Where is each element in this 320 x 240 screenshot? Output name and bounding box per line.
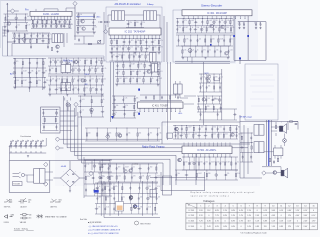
svg-text:ST-50B: ST-50B (13, 184, 20, 186)
IF transformer T202 (112, 11, 125, 20)
svg-text:+: + (75, 171, 76, 173)
svg-text:12: 12 (288, 205, 290, 207)
svg-text:220: 220 (207, 106, 210, 108)
node diamond D3 (55, 137, 59, 141)
transistor Q502 (178, 158, 182, 162)
IF transformer T102 (61, 83, 71, 91)
svg-text:56k: 56k (226, 27, 229, 29)
ground G-br (69, 190, 71, 192)
svg-text:330: 330 (48, 20, 51, 22)
svg-text:47k: 47k (45, 71, 48, 73)
cap pair labels 1 (238, 23, 245, 25)
svg-text:0.01: 0.01 (226, 20, 229, 22)
coil pack L1-L7 (9, 140, 44, 149)
svg-text:0.01: 0.01 (106, 207, 109, 209)
svg-text:10k: 10k (32, 33, 35, 35)
wire mid drops (111, 62, 161, 122)
AF input row (173, 126, 238, 140)
svg-text:IC 202 TA7640AP: IC 202 TA7640AP (125, 31, 146, 34)
svg-text:0.01: 0.01 (191, 161, 194, 163)
svg-text:1k: 1k (192, 27, 194, 29)
svg-text:3.3k: 3.3k (31, 71, 34, 73)
node circle TP-out (283, 139, 287, 143)
svg-text:0.1: 0.1 (82, 110, 84, 112)
wire U301 right drops (234, 16, 266, 61)
svg-text:9-Amp: 9-Amp (147, 3, 154, 6)
svg-text:1k: 1k (152, 78, 154, 80)
svg-text:1u: 1u (259, 23, 261, 25)
audio takeoff cluster (112, 96, 136, 118)
svg-text:AM-FM-ZF-IF-Verstärker: AM-FM-ZF-IF-Verstärker (115, 3, 141, 6)
AF stage watermark lines (249, 75, 275, 106)
resistor R215 (78, 38, 92, 44)
AM osc cluster (48, 76, 104, 94)
svg-text:56k: 56k (68, 60, 71, 62)
svg-text:56k: 56k (118, 54, 121, 56)
svg-text:47k: 47k (109, 175, 112, 177)
paper tint mid band (55, 126, 260, 186)
wire t301 links (176, 81, 188, 98)
svg-text:2.2k: 2.2k (177, 133, 180, 135)
IC U301 body (182, 10, 252, 16)
transistor Q701 (273, 171, 277, 175)
svg-text:S601: S601 (9, 200, 12, 202)
svg-text:=( )= VOLTAGE CERAMIC CAPACITO: =( )= VOLTAGE CERAMIC CAPACITOR (88, 229, 121, 232)
svg-text:0.01: 0.01 (35, 24, 38, 26)
svg-text:330: 330 (98, 60, 101, 62)
paper tint upper-left (0, 0, 166, 126)
IF transformer T201 (52, 34, 63, 43)
svg-text:0.1: 0.1 (123, 54, 125, 56)
svg-text:220: 220 (52, 24, 55, 26)
svg-text:3.3k: 3.3k (118, 46, 121, 48)
svg-text:3.3k: 3.3k (139, 64, 142, 66)
svg-text:Am: Am (10, 73, 13, 76)
svg-text:C305: C305 (28, 200, 32, 202)
svg-text:Radio–Playb. Preamp: Radio–Playb. Preamp (142, 145, 165, 148)
svg-text:0.01: 0.01 (141, 175, 144, 177)
svg-text:470: 470 (16, 61, 19, 63)
bias cluster B mid (126, 21, 144, 28)
svg-text:470: 470 (125, 105, 128, 107)
svg-text:0: 0 (241, 226, 242, 228)
svg-text:0.047: 0.047 (220, 38, 224, 40)
svg-text:0.01: 0.01 (107, 196, 110, 198)
svg-text:0.01: 0.01 (219, 127, 222, 129)
capacitor bank under U201 (31, 20, 72, 28)
svg-text:100: 100 (16, 80, 19, 82)
svg-text:15: 15 (312, 205, 314, 207)
svg-text:1k: 1k (118, 71, 120, 73)
wire diamond D2 drop (74, 6, 76, 40)
svg-text:330: 330 (150, 166, 153, 168)
svg-text:Fm: Fm (25, 8, 28, 11)
svg-text:⊕ +( )+ ELECTROLYTIC CAPACITOR: ⊕ +( )+ ELECTROLYTIC CAPACITOR (88, 232, 119, 235)
scan edge top (0, 0, 118, 2)
svg-text:0.047: 0.047 (188, 127, 192, 129)
svg-text:1k: 1k (79, 60, 81, 62)
svg-text:100: 100 (57, 24, 60, 26)
svg-text:Voltages: Voltages (203, 199, 215, 203)
voltages table cells (188, 205, 316, 229)
svg-text:0.1: 0.1 (57, 20, 59, 22)
svg-text:SW POS.: SW POS. (4, 206, 11, 208)
wire out top rail (240, 122, 298, 179)
svg-text:3.3k: 3.3k (74, 68, 77, 70)
switch unit contacts (42, 110, 59, 131)
svg-text:0.047: 0.047 (211, 161, 215, 163)
svg-text:IC 202: IC 202 (189, 215, 195, 217)
svg-text:2.2k: 2.2k (98, 78, 101, 80)
svg-text:S201: S201 (59, 200, 62, 202)
svg-text:DIODE: DIODE (4, 222, 9, 224)
svg-text:220: 220 (79, 78, 82, 80)
svg-text:220: 220 (159, 64, 162, 66)
wire a-right rails (74, 12, 104, 44)
svg-text:56k: 56k (195, 161, 198, 163)
svg-text:0.1: 0.1 (135, 54, 137, 56)
stereo rows C1 (176, 19, 233, 33)
svg-text:4.7k: 4.7k (160, 40, 163, 42)
svg-text:100: 100 (200, 161, 203, 163)
svg-text:1: 1 (200, 205, 201, 207)
FM front-end cluster (76, 13, 96, 32)
transistor QA5 (56, 45, 60, 49)
svg-text:330: 330 (148, 186, 151, 188)
switch unit box (41, 107, 60, 133)
test point circle TP1 (66, 103, 70, 107)
svg-text:10k: 10k (80, 14, 83, 16)
svg-text:56k: 56k (137, 46, 140, 48)
svg-text:0.047: 0.047 (131, 64, 135, 66)
blue junction dot 1 (233, 35, 235, 37)
svg-text:2.2k: 2.2k (103, 60, 106, 62)
svg-text:10k: 10k (147, 54, 150, 56)
svg-text:pin: pin (188, 205, 190, 207)
IC U201 pins (32, 16, 71, 20)
matrix lower cluster (197, 96, 222, 112)
svg-text:330: 330 (29, 214, 32, 216)
bridge rectifier BR1 (61, 169, 80, 187)
svg-text:1k: 1k (32, 39, 34, 41)
wire output loop (150, 172, 205, 191)
ratio detector cluster (115, 62, 160, 84)
wire sd mid stubs (184, 81, 220, 104)
svg-text:220: 220 (201, 127, 204, 129)
svg-text:3.3k: 3.3k (237, 173, 240, 175)
svg-text:470: 470 (131, 40, 134, 42)
svg-text:NF-AF-stage: NF-AF-stage (240, 116, 253, 119)
wire am left vert (16, 58, 47, 146)
svg-text:100: 100 (185, 161, 188, 163)
svg-text:47k: 47k (140, 207, 143, 209)
node test point diamond D1 (10, 9, 14, 13)
legend switch symbol (4, 199, 12, 202)
svg-text:0.1: 0.1 (86, 60, 88, 62)
IC U501 pins top (184, 143, 230, 147)
coil pack junction dots (11, 152, 42, 153)
svg-text:470: 470 (92, 87, 95, 89)
svg-text:0: 0 (200, 226, 201, 228)
svg-text:1k: 1k (74, 78, 76, 80)
svg-text:470: 470 (118, 166, 121, 168)
ground G-coil (27, 155, 29, 157)
node diamond D9 (74, 102, 78, 106)
svg-text:0.047: 0.047 (184, 27, 188, 29)
svg-text:220: 220 (53, 20, 56, 22)
svg-text:TEST POINT: TEST POINT (140, 223, 151, 225)
cap pair labels 2 (254, 23, 261, 25)
preamp transistor stage (98, 164, 158, 182)
svg-text:0: 0 (208, 215, 209, 217)
legend res spec text (29, 214, 32, 219)
wire coil rails (10, 146, 47, 160)
svg-text:1k: 1k (103, 99, 105, 101)
blue agc wire (76, 16, 95, 18)
blue arrow marker (111, 116, 114, 119)
svg-text:220: 220 (178, 27, 181, 29)
capacitor pair C310 C311 (238, 22, 245, 29)
svg-text:4.7k: 4.7k (62, 87, 65, 89)
svg-text:SPARE PART NO CHANGE: SPARE PART NO CHANGE (45, 216, 67, 219)
svg-text:10: 10 (272, 205, 274, 207)
svg-text:4.7k: 4.7k (103, 68, 106, 70)
svg-text:330: 330 (39, 33, 42, 35)
svg-text:22k: 22k (74, 87, 77, 89)
svg-text:0.047: 0.047 (125, 166, 129, 168)
svg-text:10k: 10k (136, 98, 139, 100)
svg-text:0.047: 0.047 (191, 20, 195, 22)
switch block S401 (167, 133, 173, 138)
blue node marker c (210, 44, 212, 46)
svg-text:56k: 56k (208, 27, 211, 29)
svg-text:10k: 10k (197, 27, 200, 29)
svg-text:0.1: 0.1 (123, 196, 125, 198)
IF amp section box (106, 7, 162, 62)
trimmer VC201 (97, 40, 101, 44)
svg-text:0.01: 0.01 (182, 133, 185, 135)
svg-text:330: 330 (215, 20, 218, 22)
svg-text:0.1: 0.1 (219, 133, 221, 135)
svg-text:2.2k: 2.2k (113, 40, 116, 42)
PSU filter cluster (84, 160, 112, 196)
svg-text:0.047: 0.047 (65, 24, 69, 26)
svg-text:1u: 1u (243, 23, 245, 25)
svg-text:Ge: Ge (11, 216, 13, 218)
node diamond D11 (104, 29, 108, 33)
IC U401 body (138, 102, 184, 108)
wire switch unit feeds (60, 98, 78, 131)
AF out rows (182, 157, 238, 170)
svg-text:0: 0 (281, 215, 282, 217)
svg-text:IC201 LA1260: IC201 LA1260 (43, 13, 60, 16)
IC U202 pins (111, 35, 160, 38)
speaker SP1 (279, 124, 286, 134)
output transformer T502 (254, 142, 264, 153)
label L R channels (281, 122, 289, 124)
svg-text:470: 470 (150, 132, 153, 134)
blue junction dot 2 (247, 35, 249, 37)
svg-text:13: 13 (296, 205, 298, 207)
stereo decoder enclosure (173, 10, 235, 62)
svg-text:5: 5 (233, 205, 234, 207)
svg-text:47k: 47k (44, 24, 47, 26)
svg-text:330: 330 (98, 196, 101, 198)
svg-text:3.3k: 3.3k (75, 60, 78, 62)
relay jack box (274, 148, 283, 156)
svg-text:22k: 22k (227, 173, 230, 175)
node diamond D4 (55, 146, 59, 150)
zener chain top (275, 122, 276, 136)
node diamond DA (22, 37, 26, 41)
svg-text:1k: 1k (50, 33, 52, 35)
fuse box ST-50B (13, 182, 23, 186)
component pair A-low (30, 45, 53, 50)
voltages table grid (186, 203, 318, 230)
svg-text:100: 100 (57, 60, 60, 62)
IF transformer T205 (152, 64, 158, 73)
svg-text:2.2k: 2.2k (238, 133, 241, 135)
IC U201 top stubs (36, 8, 75, 11)
svg-text:0.047: 0.047 (226, 161, 230, 163)
svg-text:TP601: TP601 (134, 206, 139, 208)
svg-text:–( )– VALUES RESISTOR 1/4W ±5%: –( )– VALUES RESISTOR 1/4W ±5% (88, 225, 118, 228)
svg-text:0: 0 (297, 220, 298, 222)
chain top-right (289, 121, 298, 130)
svg-text:0.01: 0.01 (119, 78, 122, 80)
svg-text:0.047: 0.047 (23, 71, 27, 73)
svg-text:10k: 10k (27, 16, 30, 18)
svg-text:470: 470 (62, 60, 65, 62)
svg-text:470: 470 (160, 46, 163, 48)
svg-text:220: 220 (136, 22, 139, 24)
svg-text:47k: 47k (149, 175, 152, 177)
svg-text:220: 220 (137, 40, 140, 42)
node diamond D7 (106, 134, 110, 138)
svg-text:~: ~ (75, 185, 76, 187)
AF lower rows (175, 170, 238, 180)
wire bamp verticals (101, 181, 160, 218)
svg-text:AF-L: AF-L (179, 112, 183, 115)
svg-text:IC 501: IC 501 (189, 226, 195, 228)
output stage cluster (95, 183, 158, 214)
wire gap verticals (164, 16, 167, 62)
svg-text:1k: 1k (202, 85, 204, 87)
svg-text:22k: 22k (221, 20, 224, 22)
svg-text:10k: 10k (128, 132, 131, 134)
svg-text:4.7k: 4.7k (157, 186, 160, 188)
wire diamond feeds (60, 139, 162, 148)
blue marker VR (94, 190, 99, 193)
svg-text:1k: 1k (99, 186, 101, 188)
wire psu links (25, 172, 53, 182)
wire top-right corner (240, 58, 250, 64)
svg-text:47k: 47k (203, 49, 206, 51)
svg-text:47k: 47k (91, 68, 94, 70)
svg-text:10k: 10k (113, 46, 116, 48)
svg-text:22k: 22k (7, 16, 10, 18)
svg-text:Schalter Stellung: Schalter Stellung (14, 228, 28, 231)
svg-text:470: 470 (238, 23, 241, 25)
voltages table corner diagonal (186, 203, 197, 208)
IC U501 body (182, 146, 232, 154)
svg-text:3.3k: 3.3k (87, 176, 90, 178)
svg-text:100: 100 (221, 161, 224, 163)
stereo rows C3 (181, 46, 230, 57)
component pair out-low (269, 158, 278, 163)
svg-text:47k: 47k (85, 87, 88, 89)
node test point diamond D2 (73, 1, 77, 5)
bus top cluster (85, 128, 160, 141)
svg-text:220: 220 (212, 38, 215, 40)
scan edge left (0, 0, 1, 48)
svg-text:100: 100 (217, 161, 220, 163)
IF transformer T101 (61, 65, 71, 73)
svg-text:0.047: 0.047 (198, 173, 202, 175)
node diamond D5 (44, 162, 48, 166)
node diamond D6 (44, 182, 48, 186)
svg-text:470: 470 (68, 87, 71, 89)
wire left rail (4, 3, 31, 56)
blue junction sq2 (138, 113, 140, 115)
svg-text:IC 301 MC1310P: IC 301 MC1310P (207, 12, 227, 15)
svg-text:0.01: 0.01 (82, 99, 85, 101)
svg-text:0.1: 0.1 (237, 161, 239, 163)
node diamond D10 (262, 171, 266, 175)
svg-text:0.1: 0.1 (188, 133, 190, 135)
svg-text:2.2k: 2.2k (38, 80, 41, 82)
svg-text:330: 330 (208, 173, 211, 175)
wire q50x links (162, 115, 240, 144)
svg-text:10k: 10k (109, 132, 112, 134)
svg-text:47k: 47k (115, 186, 118, 188)
FM IF section border (3, 26, 105, 62)
svg-text:22k: 22k (232, 27, 235, 29)
IC U202 body (109, 28, 161, 35)
AM agc cluster (78, 96, 104, 117)
svg-text:330: 330 (213, 127, 216, 129)
svg-text:0.1: 0.1 (154, 40, 156, 42)
legend star symbol (37, 214, 43, 218)
power supply box (9, 161, 50, 193)
svg-text:3.3k: 3.3k (148, 46, 151, 48)
svg-text:2.2k: 2.2k (124, 98, 127, 100)
svg-text:470: 470 (138, 71, 141, 73)
svg-text:220: 220 (194, 133, 197, 135)
svg-text:100: 100 (43, 20, 46, 22)
svg-text:56k: 56k (130, 54, 133, 56)
svg-text:0.01: 0.01 (225, 133, 228, 135)
svg-text:330: 330 (71, 24, 74, 26)
wire psu-right verticals (84, 157, 100, 198)
svg-text:2.2k: 2.2k (130, 46, 133, 48)
wire output bus lines (267, 120, 272, 166)
svg-text:220: 220 (101, 175, 104, 177)
IC U501 pins bottom (184, 154, 230, 157)
wire sd top rails (175, 57, 230, 63)
svg-text:10k: 10k (215, 27, 218, 29)
svg-text:0.047: 0.047 (209, 20, 213, 22)
svg-text:220: 220 (138, 78, 141, 80)
svg-text:3.3k: 3.3k (57, 78, 60, 80)
svg-text:22k: 22k (129, 22, 132, 24)
svg-text:IC 501 AF-AMPL.: IC 501 AF-AMPL. (197, 149, 217, 152)
svg-text:14: 14 (304, 205, 306, 207)
svg-text:0.01: 0.01 (148, 207, 151, 209)
svg-text:10k: 10k (208, 85, 211, 87)
IC U401 pins (140, 108, 180, 111)
stereo rows C2 (176, 35, 233, 46)
